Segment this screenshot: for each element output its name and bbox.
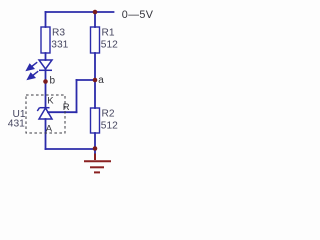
svg-text:b: b	[50, 76, 56, 87]
svg-text:331: 331	[51, 40, 68, 51]
svg-text:R1: R1	[102, 28, 115, 39]
svg-text:A: A	[46, 124, 53, 135]
svg-text:512: 512	[101, 40, 118, 51]
svg-text:a: a	[98, 75, 104, 86]
svg-text:512: 512	[101, 121, 118, 132]
svg-text:R2: R2	[102, 109, 115, 120]
svg-text:0—5V: 0—5V	[122, 9, 154, 21]
svg-text:K: K	[47, 96, 54, 107]
svg-text:431: 431	[8, 119, 25, 130]
svg-text:R: R	[63, 102, 70, 113]
svg-text:R3: R3	[52, 28, 65, 39]
